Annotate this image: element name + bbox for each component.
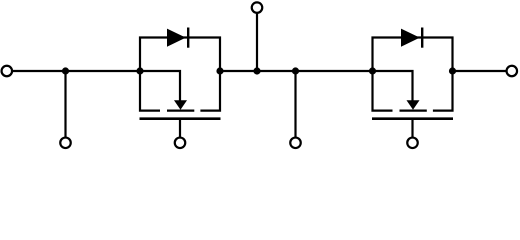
wire Q1 body tie xyxy=(140,71,180,101)
wire node A to Q1 source node xyxy=(66,70,141,72)
node Q1 drain junction xyxy=(216,67,223,74)
terminal T4 (top center) xyxy=(252,2,263,13)
wire Q2 body tie xyxy=(373,71,413,101)
transistor Q1 (N-MOSFET with body diode) xyxy=(136,28,223,149)
node Q2 source junction xyxy=(369,67,376,74)
wire node A down to terminal T2 xyxy=(64,71,66,138)
terminal T5 (bottom center) xyxy=(290,138,301,149)
wire Q2 drain to terminal T7 xyxy=(453,70,507,72)
wire Q1 drain to node B xyxy=(220,70,257,72)
wire node B to node C xyxy=(257,70,296,72)
wire Q2 source lead to channel xyxy=(373,71,393,111)
wire Q2 gate lead xyxy=(411,119,413,138)
node C junction xyxy=(292,67,299,74)
terminal T2 (bottom left) xyxy=(60,138,71,149)
Q1 channel middle segment xyxy=(167,109,194,111)
Q1 body arrow xyxy=(174,100,187,110)
diode D2 cathode bar xyxy=(421,28,423,48)
Q2 body arrow xyxy=(407,100,420,110)
terminal T6 (Q2 gate) xyxy=(407,138,418,149)
wire body-diode D1 loop xyxy=(140,38,220,72)
wire node C to Q2 drain node xyxy=(296,70,373,72)
Q2 gate electrode bar xyxy=(372,117,453,120)
terminal T3 (Q1 gate) xyxy=(175,138,186,149)
Q2 channel middle segment xyxy=(400,109,427,111)
diode D1 triangle (anode) xyxy=(167,29,186,47)
diode D1 cathode bar xyxy=(187,28,189,48)
wire T1 to node A xyxy=(12,70,66,72)
wire Q1 drain lead to channel xyxy=(200,71,220,111)
wire Q1 source lead to channel xyxy=(140,71,160,111)
node B junction xyxy=(253,67,260,74)
terminal T7 (right) xyxy=(507,66,518,77)
Q1 gate electrode bar xyxy=(140,117,221,120)
wire Q1 gate lead xyxy=(179,119,181,138)
diode D2 triangle (anode) xyxy=(401,29,420,47)
wire Q2 drain lead to channel xyxy=(433,71,453,111)
wire node C down to terminal T5 xyxy=(294,71,296,138)
node Q1 source junction xyxy=(136,67,143,74)
transistor Q2 (N-MOSFET with body diode) xyxy=(369,28,456,149)
node Q2 drain junction xyxy=(449,67,456,74)
wire node B up to terminal T4 xyxy=(256,13,258,71)
wire body-diode D2 loop xyxy=(373,38,453,72)
node A junction xyxy=(62,67,69,74)
terminal T1 (left) xyxy=(2,66,13,77)
